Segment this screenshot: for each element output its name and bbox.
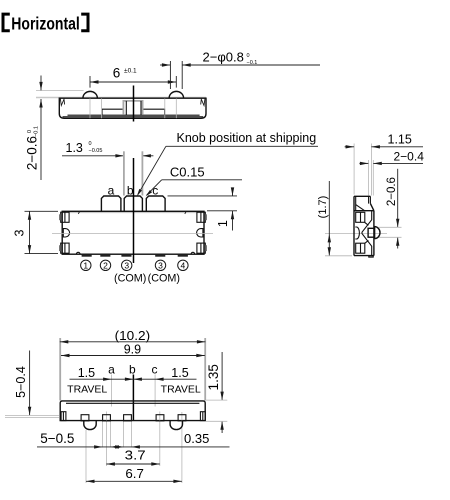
- svg-text:2−0.6: 2−0.6: [25, 136, 40, 170]
- svg-text:0.35: 0.35: [184, 431, 209, 446]
- svg-text:(1.7): (1.7): [317, 196, 329, 219]
- svg-text:1.3: 1.3: [66, 141, 83, 155]
- svg-text:6.7: 6.7: [125, 466, 143, 481]
- svg-text:0: 0: [247, 53, 250, 59]
- svg-text:3: 3: [158, 260, 163, 270]
- svg-text:3: 3: [13, 229, 27, 236]
- svg-text:2−φ0.8: 2−φ0.8: [203, 49, 244, 64]
- svg-text:9.9: 9.9: [124, 342, 141, 356]
- svg-text:1: 1: [216, 220, 230, 227]
- svg-text:a: a: [108, 362, 115, 376]
- svg-text:TRAVEL: TRAVEL: [67, 383, 107, 395]
- svg-text:±0.1: ±0.1: [124, 68, 137, 75]
- svg-text:4: 4: [181, 260, 186, 270]
- svg-text:3: 3: [124, 260, 129, 270]
- svg-text:2: 2: [103, 260, 108, 270]
- svg-text:1: 1: [83, 260, 88, 270]
- svg-text:1.15: 1.15: [388, 133, 412, 147]
- svg-text:(COM): (COM): [114, 273, 146, 285]
- svg-text:2−0.4: 2−0.4: [394, 150, 425, 164]
- svg-text:a: a: [108, 183, 115, 197]
- svg-text:b: b: [129, 362, 136, 376]
- svg-text:6: 6: [113, 66, 121, 81]
- svg-text:c: c: [152, 184, 158, 198]
- svg-text:1.35: 1.35: [206, 364, 221, 390]
- svg-text:TRAVEL: TRAVEL: [161, 383, 201, 395]
- svg-text:−0.1: −0.1: [33, 126, 39, 137]
- svg-text:c: c: [152, 362, 158, 376]
- svg-text:C0.15: C0.15: [170, 164, 205, 179]
- svg-text:0: 0: [89, 141, 92, 147]
- svg-text:1.5: 1.5: [171, 366, 188, 380]
- svg-text:−0.1: −0.1: [247, 60, 258, 66]
- svg-text:Knob position at shipping: Knob position at shipping: [177, 131, 317, 145]
- svg-text:(COM): (COM): [148, 273, 180, 285]
- svg-text:0: 0: [27, 130, 33, 133]
- svg-text:1.5: 1.5: [78, 366, 95, 380]
- svg-text:Horizontal: Horizontal: [11, 13, 80, 33]
- svg-text:(10.2): (10.2): [115, 328, 151, 343]
- svg-text:−0.05: −0.05: [89, 148, 103, 154]
- svg-text:2−0.6: 2−0.6: [386, 177, 398, 206]
- svg-text:5−0.4: 5−0.4: [14, 366, 28, 398]
- svg-text:5−0.5: 5−0.5: [40, 431, 74, 446]
- svg-text:3.7: 3.7: [125, 447, 146, 462]
